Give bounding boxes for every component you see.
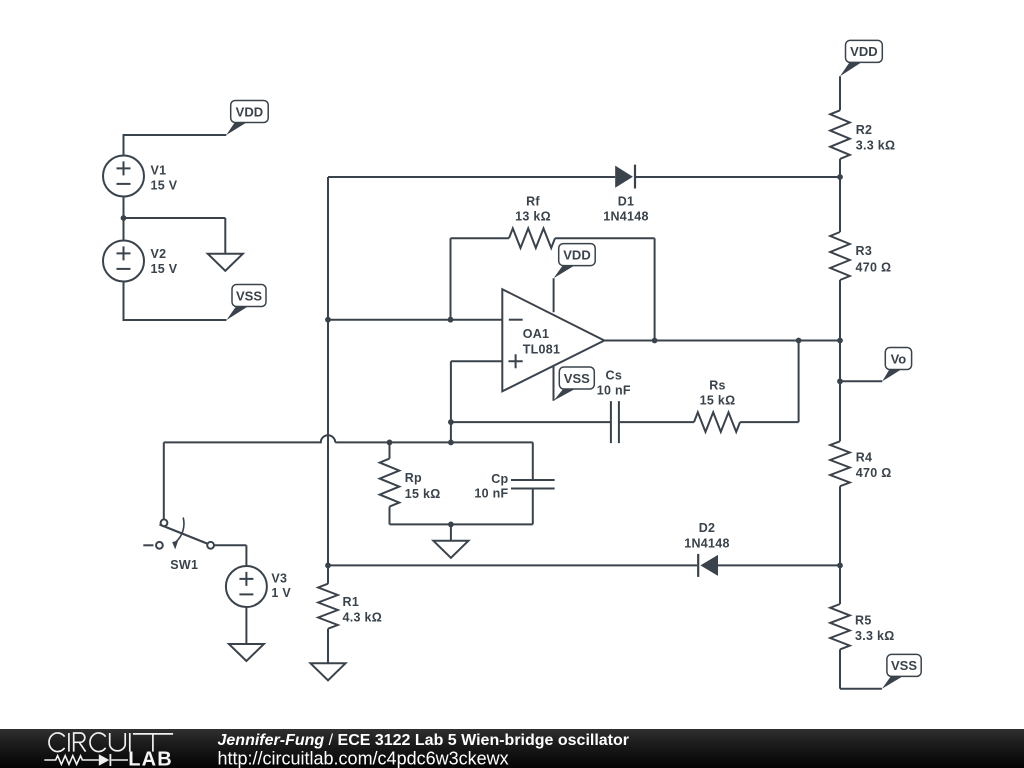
svg-text:1N4148: 1N4148 — [684, 537, 730, 551]
svg-text:V3: V3 — [271, 571, 287, 585]
svg-text:15 V: 15 V — [151, 262, 178, 276]
svg-text:R2: R2 — [856, 123, 873, 137]
svg-text:SW1: SW1 — [170, 558, 198, 572]
svg-text:VSS: VSS — [236, 288, 262, 303]
svg-text:OA1: OA1 — [523, 327, 550, 341]
svg-text:470 Ω: 470 Ω — [856, 466, 892, 480]
svg-text:15 kΩ: 15 kΩ — [405, 487, 441, 501]
svg-text:1N4148: 1N4148 — [603, 210, 649, 224]
svg-text:Rf: Rf — [526, 195, 540, 209]
svg-text:LAB: LAB — [128, 749, 173, 768]
svg-text:R4: R4 — [856, 450, 873, 464]
svg-text:R5: R5 — [855, 613, 872, 627]
svg-text:Rs: Rs — [709, 379, 726, 393]
svg-text:Cp: Cp — [491, 472, 508, 486]
svg-text:13 kΩ: 13 kΩ — [515, 210, 551, 224]
svg-text:TL081: TL081 — [523, 342, 561, 356]
svg-text:VDD: VDD — [236, 104, 263, 119]
svg-text:VDD: VDD — [850, 44, 877, 59]
svg-text:Rp: Rp — [405, 471, 422, 485]
svg-text:3.3 kΩ: 3.3 kΩ — [856, 139, 896, 153]
svg-text:Vo: Vo — [891, 351, 907, 366]
svg-text:D2: D2 — [699, 521, 716, 535]
svg-text:10 nF: 10 nF — [597, 384, 631, 398]
svg-text:470 Ω: 470 Ω — [856, 260, 892, 274]
svg-text:15 kΩ: 15 kΩ — [700, 394, 736, 408]
svg-text:10 nF: 10 nF — [474, 487, 508, 501]
svg-text:VDD: VDD — [563, 247, 590, 262]
svg-text:1 V: 1 V — [271, 586, 291, 600]
svg-text:3.3 kΩ: 3.3 kΩ — [855, 629, 895, 643]
svg-text:Cs: Cs — [606, 368, 623, 382]
svg-text:R1: R1 — [343, 595, 360, 609]
svg-text:http://circuitlab.com/c4pdc6w3: http://circuitlab.com/c4pdc6w3ckewx — [218, 749, 509, 768]
svg-text:V1: V1 — [151, 164, 167, 178]
svg-text:4.3 kΩ: 4.3 kΩ — [343, 610, 383, 624]
svg-text:15 V: 15 V — [151, 179, 178, 193]
svg-text:V2: V2 — [151, 247, 167, 261]
svg-text:D1: D1 — [618, 195, 635, 209]
svg-text:VSS: VSS — [564, 371, 590, 386]
svg-text:VSS: VSS — [891, 658, 917, 673]
svg-text:R3: R3 — [856, 244, 873, 258]
svg-text:Jennifer-Fung / ECE 3122 Lab 5: Jennifer-Fung / ECE 3122 Lab 5 Wien-brid… — [218, 732, 630, 749]
